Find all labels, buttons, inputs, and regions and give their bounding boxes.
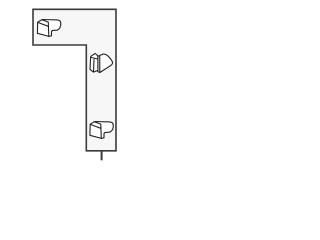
clip icon 2 (middle) (90, 53, 113, 72)
clip icon 3 (bottom) (90, 122, 113, 139)
flag-shaped panel (33, 9, 116, 151)
bottom tick (101, 151, 103, 161)
lobe (98, 54, 113, 73)
panel outline (flag-shaped part silhouette) (0, 0, 150, 169)
clip icon 1 (top-left) (37, 20, 60, 37)
plate (90, 53, 98, 72)
